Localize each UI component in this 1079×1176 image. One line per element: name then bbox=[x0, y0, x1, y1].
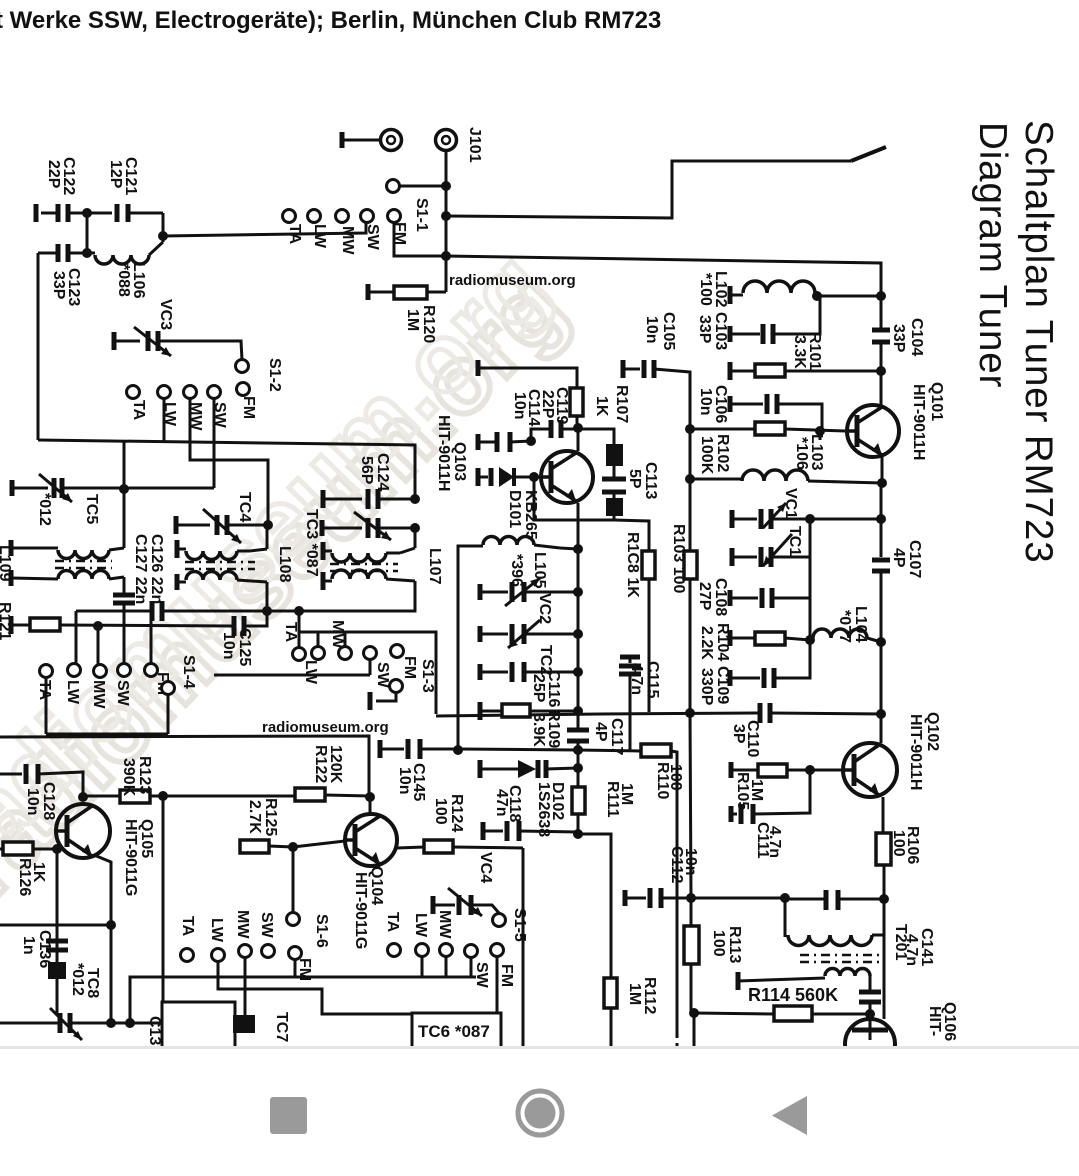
svg-text:R107: R107 bbox=[613, 385, 630, 423]
svg-text:S1-3: S1-3 bbox=[419, 659, 436, 693]
wire C119 left bbox=[531, 429, 551, 441]
wire line 737 bbox=[0, 736, 369, 794]
svg-text:C109: C109 bbox=[714, 666, 731, 704]
svg-text:*012: *012 bbox=[36, 493, 53, 526]
resistor R103 bbox=[689, 549, 692, 551]
resistor R112 bbox=[604, 978, 617, 1008]
svg-text:C126 22n: C126 22n bbox=[148, 534, 165, 604]
switch S1-3 contact LW bbox=[312, 647, 325, 660]
switch S1-5 contact MW bbox=[440, 944, 453, 957]
svg-text:47n: 47n bbox=[493, 789, 510, 817]
capacitor C108 bbox=[728, 590, 733, 606]
wire line 714 bbox=[436, 713, 758, 716]
svg-text:R124: R124 bbox=[448, 794, 465, 832]
svg-text:C107: C107 bbox=[906, 540, 923, 578]
shield box TC6 bbox=[412, 1013, 501, 1046]
svg-text:12P: 12P bbox=[107, 160, 124, 189]
svg-text:3P: 3P bbox=[730, 724, 747, 744]
wire TA S1-3 drop bbox=[298, 611, 301, 648]
switch S1-3 contact TA bbox=[293, 648, 306, 661]
switch S1-6 contact MW bbox=[239, 945, 252, 958]
switch S1-2 contact SW bbox=[208, 386, 221, 399]
trimmer TC4 bbox=[174, 516, 179, 534]
svg-text:56P: 56P bbox=[358, 456, 375, 485]
wire line 611 bbox=[76, 610, 150, 613]
antenna stub bbox=[340, 132, 345, 148]
wire SW S1-3 line bbox=[214, 674, 370, 677]
switch S1-6 contact FM bbox=[289, 947, 302, 960]
wire SW lead bbox=[213, 398, 216, 488]
svg-text:HIT-: HIT- bbox=[926, 1006, 943, 1036]
svg-text:TC4: TC4 bbox=[236, 492, 253, 522]
wire collector bbox=[369, 797, 372, 814]
svg-text:C108: C108 bbox=[712, 578, 729, 616]
resistor R123 bbox=[78, 792, 88, 802]
nav triangle bbox=[772, 1096, 807, 1135]
wire S1-5 SW down bbox=[470, 957, 473, 977]
svg-text:C128: C128 bbox=[40, 782, 57, 820]
switch S1-4 contact FM bbox=[145, 664, 158, 677]
svg-text:S1-2: S1-2 bbox=[266, 358, 283, 392]
svg-text:L109: L109 bbox=[0, 545, 13, 582]
svg-text:100: 100 bbox=[432, 798, 449, 825]
svg-text:10n: 10n bbox=[24, 788, 41, 816]
svg-text:LW: LW bbox=[311, 224, 328, 249]
svg-text:R125: R125 bbox=[262, 798, 279, 836]
switch S1-6 contact TA bbox=[181, 949, 194, 962]
transistor Q104 bbox=[345, 814, 397, 866]
inductor L103 bbox=[690, 478, 742, 481]
resistor R124 bbox=[397, 847, 424, 848]
svg-text:5P: 5P bbox=[626, 469, 643, 489]
node R121 bbox=[93, 621, 103, 631]
trimmer TC1 bbox=[730, 548, 735, 566]
switch S1-4 contact SW bbox=[118, 664, 131, 677]
wire base down bbox=[534, 477, 614, 520]
switch S1-1 pole bbox=[387, 180, 400, 193]
wire L103 node down bbox=[819, 431, 822, 440]
capacitor C128 bbox=[0, 773, 22, 776]
switch S1-2 contact FM bbox=[237, 383, 250, 396]
svg-text:R104: R104 bbox=[714, 623, 731, 661]
trimmer TC5 bbox=[10, 480, 15, 496]
svg-text:C125: C125 bbox=[236, 628, 253, 666]
wire line 925 bbox=[0, 924, 111, 927]
inductor L106 bbox=[68, 252, 95, 255]
svg-text:C105: C105 bbox=[660, 312, 677, 350]
wire LW S1-4 drop bbox=[75, 611, 78, 664]
node R123 bbox=[158, 791, 168, 801]
svg-text:Q103: Q103 bbox=[451, 442, 468, 481]
transistor Q102 bbox=[843, 743, 897, 797]
wire down to L109 bbox=[123, 440, 126, 489]
wire LW to tank line bbox=[163, 398, 166, 441]
svg-text:MW: MW bbox=[339, 226, 356, 255]
node line714 bbox=[685, 708, 695, 718]
inductor L109 secondary bbox=[9, 570, 14, 586]
wire S1-5 FM down bbox=[496, 956, 499, 1013]
capacitor C117 4P bbox=[567, 728, 589, 733]
svg-text:TA: TA bbox=[130, 400, 147, 421]
wire C105 column down bbox=[689, 429, 692, 479]
svg-text:LW: LW bbox=[412, 913, 429, 938]
svg-text:10n: 10n bbox=[697, 388, 714, 416]
svg-text:MW: MW bbox=[436, 910, 453, 939]
wire collector Q103 bbox=[577, 428, 580, 451]
trimmer TC2 bbox=[478, 626, 483, 642]
wire antenna top bbox=[446, 161, 851, 218]
wire R107 top bbox=[476, 360, 481, 376]
svg-text:LW: LW bbox=[64, 680, 81, 705]
wire up to line 978 bbox=[130, 977, 476, 1023]
svg-text:R122: R122 bbox=[312, 745, 329, 783]
transformer T201 secondary bbox=[736, 972, 741, 990]
svg-text:HIT-9011H: HIT-9011H bbox=[907, 714, 924, 790]
node R122 bbox=[365, 792, 375, 802]
svg-text:L107: L107 bbox=[426, 548, 443, 585]
resistor R106 bbox=[876, 833, 891, 865]
transistor Q106 partial bbox=[845, 1019, 895, 1069]
svg-text:C113: C113 bbox=[642, 462, 659, 499]
trimmer VC2 bbox=[478, 584, 483, 600]
transformer L108 core bbox=[185, 561, 255, 564]
inductor L107 secondary bbox=[321, 572, 326, 590]
svg-text:R1C8 1K: R1C8 1K bbox=[624, 532, 641, 598]
svg-text:3.9K: 3.9K bbox=[530, 713, 547, 747]
capacitor C121 bbox=[115, 204, 120, 222]
switch S1-2 contact LW bbox=[158, 386, 171, 399]
svg-text:Q101: Q101 bbox=[928, 382, 945, 421]
svg-text:TC8: TC8 bbox=[84, 968, 101, 998]
svg-text:27P: 27P bbox=[696, 582, 713, 611]
wire tank to S1-1 SW bbox=[163, 222, 366, 236]
resistor R101 bbox=[728, 362, 733, 380]
capacitor C145 bbox=[378, 740, 383, 758]
svg-text:Schaltplan Tuner RM723: Schaltplan Tuner RM723 bbox=[1017, 120, 1060, 564]
wire R113 below bbox=[693, 1013, 696, 1046]
svg-text:Q102: Q102 bbox=[924, 712, 941, 751]
svg-text:100: 100 bbox=[667, 764, 684, 791]
svg-text:L108: L108 bbox=[276, 546, 293, 583]
capacitor C125 bbox=[232, 616, 237, 636]
wire VC3 to S1-2 pole bbox=[158, 341, 242, 360]
svg-text:R123: R123 bbox=[136, 756, 153, 794]
svg-text:VC3: VC3 bbox=[157, 299, 174, 330]
resistor R110 bbox=[578, 750, 641, 751]
wire R103 column down bbox=[690, 713, 691, 898]
svg-text:100: 100 bbox=[890, 830, 907, 857]
svg-text:HIT-9011G: HIT-9011G bbox=[122, 819, 139, 896]
wire FM line to right bus bbox=[446, 256, 881, 330]
wire C121 to L106 bbox=[86, 213, 89, 253]
wire R124 down bbox=[522, 848, 525, 1046]
inductor L104 bbox=[813, 629, 867, 638]
svg-text:HIT-9011G: HIT-9011G bbox=[352, 872, 369, 949]
svg-text:4.7n: 4.7n bbox=[766, 826, 783, 858]
capacitor C107 on bus bbox=[872, 558, 890, 563]
capacitor C113 5P bbox=[578, 429, 614, 444]
inductor L107 primary bbox=[321, 542, 326, 560]
wire FM to bus bbox=[394, 222, 446, 256]
svg-text:4P: 4P bbox=[890, 548, 907, 568]
svg-text:J101: J101 bbox=[466, 127, 483, 163]
wire line 749 bbox=[458, 749, 578, 750]
nav circle bbox=[518, 1091, 562, 1135]
wire R111 to R112 bbox=[578, 834, 611, 978]
svg-text:Q105: Q105 bbox=[138, 819, 155, 858]
capacitor C124 bbox=[321, 490, 326, 508]
wire C113 to R108 bbox=[614, 520, 649, 549]
svg-text:1M: 1M bbox=[626, 983, 643, 1005]
switch S1-1 contact SW bbox=[361, 210, 374, 223]
trimmer TC8 bbox=[58, 1013, 63, 1033]
wire J101 down bbox=[445, 150, 448, 292]
svg-text:25P: 25P bbox=[530, 674, 547, 703]
svg-text:100K: 100K bbox=[698, 436, 715, 475]
capacitor C116 bbox=[478, 664, 483, 680]
svg-text:C104: C104 bbox=[908, 318, 925, 356]
switch S1-4 pole bbox=[162, 682, 175, 695]
wire TC3 down bbox=[414, 528, 417, 548]
capacitor C104 on bus bbox=[872, 328, 890, 333]
transformer L107 core bbox=[330, 563, 398, 566]
wire VC1 column bbox=[809, 519, 812, 640]
capacitor C103 bbox=[728, 326, 733, 342]
switch S1-5 contact TA bbox=[388, 944, 401, 957]
svg-text:390K: 390K bbox=[120, 758, 137, 797]
T201 core bbox=[800, 954, 880, 957]
svg-text:C124: C124 bbox=[374, 453, 391, 491]
svg-text:10n: 10n bbox=[682, 848, 699, 876]
svg-text:22P: 22P bbox=[45, 160, 62, 189]
svg-text:HIT-9011H: HIT-9011H bbox=[910, 384, 927, 460]
wire Q105 base col bbox=[56, 849, 59, 1013]
wire S1-6 FM bbox=[294, 959, 297, 977]
svg-text:TC3 *087: TC3 *087 bbox=[303, 509, 320, 577]
svg-text:Q104: Q104 bbox=[368, 866, 385, 905]
svg-text:TC6 *087: TC6 *087 bbox=[418, 1022, 490, 1041]
svg-text:4P: 4P bbox=[592, 722, 609, 742]
switch S1-5 contact LW bbox=[416, 944, 429, 957]
capacitor C115 bbox=[620, 655, 640, 660]
node R102 bbox=[685, 424, 695, 434]
capacitor C105 bbox=[621, 360, 626, 378]
wire Q101 collector bbox=[881, 455, 884, 483]
watermark bbox=[0, 231, 588, 917]
resistor R108 bbox=[648, 549, 651, 551]
capacitor C112 bbox=[623, 890, 628, 906]
connector jack bbox=[381, 130, 402, 151]
capacitor C106 bbox=[728, 396, 733, 412]
svg-text:1S2638: 1S2638 bbox=[535, 782, 552, 837]
wire bus down bbox=[880, 571, 883, 642]
inductor L109 primary bbox=[9, 540, 14, 556]
resistor R113 bbox=[690, 898, 693, 926]
wire S1-5 MW down bbox=[445, 956, 448, 977]
svg-text:R121: R121 bbox=[0, 602, 13, 640]
svg-text:*077: *077 bbox=[836, 610, 853, 643]
switch S1-3 pole bbox=[390, 680, 403, 693]
transformer L109 core bbox=[55, 560, 112, 563]
svg-text:MW: MW bbox=[234, 910, 251, 939]
svg-text:LW: LW bbox=[208, 918, 225, 943]
switch S1-5 contact FM bbox=[491, 944, 504, 957]
switch S1-1 contact MW bbox=[336, 210, 349, 223]
wire to SW S1-4 bbox=[123, 603, 126, 664]
svg-text:radiomuseum.org: radiomuseum.org bbox=[262, 719, 389, 736]
svg-text:*088: *088 bbox=[115, 264, 132, 297]
node A2 bbox=[158, 231, 168, 241]
svg-text:FM: FM bbox=[401, 656, 418, 679]
svg-text:LW: LW bbox=[302, 660, 319, 685]
svg-text:S1-1: S1-1 bbox=[413, 198, 430, 232]
node C124 bbox=[410, 494, 420, 504]
switch S1-5 contact SW bbox=[465, 945, 478, 958]
transistor Q105 bbox=[56, 804, 110, 858]
svg-text:10n: 10n bbox=[511, 392, 528, 420]
wire line 898 bbox=[686, 893, 696, 903]
capacitor C119 bbox=[549, 420, 554, 438]
switch S1-5 pole bbox=[493, 914, 506, 927]
svg-text:TC1: TC1 bbox=[786, 526, 803, 556]
switch S1-6 contact SW bbox=[262, 945, 275, 958]
wire R125 down to S1-6 bbox=[292, 847, 295, 912]
switch S1-6 contact LW bbox=[212, 949, 225, 962]
wire line 734 bbox=[46, 733, 168, 736]
wire line 749 dashed end bbox=[676, 1032, 679, 1046]
black pad TC8 bbox=[48, 962, 66, 979]
svg-text:Diagram Tuner: Diagram Tuner bbox=[971, 122, 1014, 388]
svg-text:1M: 1M bbox=[404, 309, 421, 331]
switch blade antenna bbox=[851, 147, 886, 161]
svg-text:FM: FM bbox=[240, 396, 257, 419]
resistor R107 bbox=[570, 388, 583, 416]
switch S1-3 contact SW bbox=[364, 647, 377, 660]
svg-text:3.3K: 3.3K bbox=[791, 335, 808, 369]
switch S1-1 contact LW bbox=[308, 210, 321, 223]
inductor L105 bbox=[483, 537, 534, 546]
svg-text:C127 22n: C127 22n bbox=[132, 534, 149, 604]
wire C125 to L108 bbox=[244, 611, 267, 626]
svg-text:MW: MW bbox=[90, 680, 107, 709]
node A1 bbox=[68, 212, 112, 215]
wire bus Q101 to C107 bbox=[880, 483, 883, 557]
capacitor C122 bbox=[34, 204, 39, 222]
svg-text:C103: C103 bbox=[712, 312, 729, 350]
transformer T201 primary bbox=[784, 898, 787, 937]
svg-text:*012: *012 bbox=[69, 963, 86, 996]
inductor L108 secondary bbox=[175, 574, 180, 590]
node TC5 bbox=[119, 484, 129, 494]
svg-text:S1-6: S1-6 bbox=[313, 914, 330, 948]
diode D102 bbox=[478, 760, 483, 778]
switch S1-2 pole bbox=[236, 360, 249, 373]
svg-text:VC4: VC4 bbox=[477, 852, 494, 883]
svg-text:S1-4: S1-4 bbox=[180, 655, 197, 689]
capacitor C136 bbox=[46, 939, 68, 944]
node R107 bottom bbox=[573, 423, 583, 433]
svg-text:D101: D101 bbox=[506, 490, 523, 528]
capacitor C141 bbox=[859, 990, 881, 995]
svg-text:R113: R113 bbox=[726, 926, 743, 963]
svg-text:HIT-9011H: HIT-9011H bbox=[435, 415, 452, 491]
resistor R105 bbox=[689, 712, 692, 715]
inductor L108 primary bbox=[175, 540, 180, 558]
node TC4 bbox=[263, 520, 273, 530]
nav square bbox=[270, 1097, 307, 1134]
svg-text:1M: 1M bbox=[618, 783, 635, 805]
svg-text:1K: 1K bbox=[593, 396, 610, 417]
svg-text:10n: 10n bbox=[220, 632, 237, 660]
capacitor T201 top bbox=[824, 890, 829, 910]
resistor R126 bbox=[0, 848, 3, 851]
svg-text:2.7K: 2.7K bbox=[246, 800, 263, 834]
svg-text:C115: C115 bbox=[644, 661, 661, 698]
trimmer VC4 bbox=[431, 896, 436, 914]
svg-text:SW: SW bbox=[114, 680, 131, 707]
switch S1-3 contact FM bbox=[391, 645, 404, 658]
svg-text:10n: 10n bbox=[396, 767, 413, 795]
transistor Q103 bbox=[541, 451, 593, 503]
resistor R114 bbox=[689, 1008, 699, 1018]
wire Q105 emitter bbox=[94, 855, 111, 925]
svg-text:TA: TA bbox=[384, 912, 401, 933]
resistor R102 bbox=[690, 428, 755, 431]
node TC3 bbox=[410, 523, 420, 533]
resistor R125 bbox=[239, 845, 242, 848]
svg-text:33P: 33P bbox=[50, 271, 67, 300]
wire line 1023 bbox=[0, 1022, 60, 1025]
svg-text:TA: TA bbox=[286, 224, 303, 245]
svg-text:120K: 120K bbox=[327, 745, 344, 784]
wire MW lead bbox=[190, 398, 268, 525]
wire LW join bbox=[299, 632, 436, 714]
wire emitter column bbox=[577, 549, 580, 728]
svg-text:TC7: TC7 bbox=[273, 1012, 290, 1042]
connector J101 bbox=[436, 130, 457, 151]
svg-text:SW: SW bbox=[258, 912, 275, 939]
svg-text:FM: FM bbox=[296, 958, 313, 981]
resistor R121 bbox=[9, 616, 14, 634]
svg-text:SW: SW bbox=[364, 224, 381, 251]
svg-text:33P: 33P bbox=[696, 315, 713, 344]
wire MW S1-4 drop bbox=[97, 626, 100, 665]
svg-text:FM: FM bbox=[498, 964, 515, 987]
capacitor C125a bbox=[150, 601, 155, 621]
trimmer VC1 bbox=[730, 510, 735, 528]
resistor R111 bbox=[577, 750, 580, 768]
wire emitter Q103 down bbox=[577, 503, 580, 549]
switch S1-1 contact TA bbox=[283, 210, 296, 223]
wire C123 down bbox=[37, 253, 40, 440]
resistor R122 bbox=[295, 788, 325, 801]
wire bus C104 to Q101 bbox=[880, 342, 883, 371]
svg-text:4.7n: 4.7n bbox=[628, 663, 645, 695]
black pad TC7 bbox=[233, 1015, 255, 1033]
switch S1-4 contact TA bbox=[40, 665, 53, 678]
svg-text:C13: C13 bbox=[146, 1016, 163, 1045]
svg-text:R114 560K: R114 560K bbox=[748, 985, 838, 1005]
svg-text:2.2K: 2.2K bbox=[698, 626, 715, 660]
svg-text:L104: L104 bbox=[852, 606, 869, 643]
capacitor C118 bbox=[481, 822, 486, 840]
wire L108 top right bbox=[266, 525, 269, 549]
capacitor C126 bbox=[123, 577, 126, 593]
svg-text:*106: *106 bbox=[793, 437, 810, 470]
svg-text:KB265: KB265 bbox=[522, 490, 539, 540]
trimmer TC3 bbox=[320, 520, 325, 536]
svg-text:1K: 1K bbox=[30, 862, 47, 883]
